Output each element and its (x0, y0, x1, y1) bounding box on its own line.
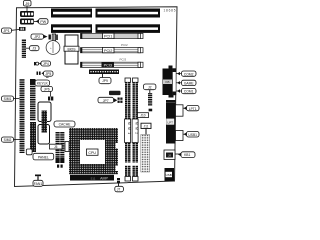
callout JP7 (98, 97, 117, 103)
svg-text:PANEL: PANEL (38, 155, 49, 159)
fan connector icon (35, 175, 41, 181)
jumper bottom-center (117, 178, 120, 186)
SMD parts under PCI1 (121, 43, 128, 47)
io tab above stack1 (169, 66, 173, 69)
callout JP3 (26, 46, 39, 51)
SMD parts under PCI2 (120, 57, 127, 61)
svg-text:CACHE: CACHE (59, 123, 72, 127)
power connector PS1 (hatched) (141, 135, 150, 173)
callout JP6 (41, 86, 53, 96)
SIMM socket column 2 upper (30, 79, 36, 121)
label J10 (138, 113, 149, 118)
jumper J1 icon (34, 62, 39, 65)
connector box with dark label (mid right) (164, 150, 181, 160)
svg-text:GAME: GAME (184, 82, 195, 86)
small part (56, 35, 58, 41)
jumper JP6 dots (48, 97, 53, 101)
dark label JP8 (109, 91, 121, 95)
header J2 (148, 93, 152, 106)
svg-text:PCI2: PCI2 (104, 49, 112, 53)
svg-text:JP5: JP5 (45, 72, 51, 76)
svg-text:J10: J10 (140, 114, 145, 118)
svg-text:KB: KB (165, 80, 169, 84)
socket side notch left (65, 142, 69, 152)
vertical header over chips (42, 111, 48, 133)
io stack2 (serial/parallel) (166, 103, 183, 144)
callout PWR (36, 19, 48, 24)
pin header strip (left) (22, 39, 26, 58)
svg-text:KEYLK: KEYLK (37, 82, 49, 86)
svg-text:BIOS: BIOS (67, 47, 76, 51)
svg-text:JP2: JP2 (34, 35, 40, 39)
callout SIMM2 (2, 137, 20, 142)
ISA slot ISA1 (51, 9, 160, 18)
SIMM socket column 1 (20, 79, 25, 153)
jumper J2 icon (37, 72, 41, 75)
svg-text:LPT1: LPT1 (189, 107, 197, 111)
callout LPT1 (183, 106, 199, 111)
io stack3 (USB) (165, 168, 175, 181)
svg-text:511: 511 (91, 176, 96, 180)
jumper JP7 dots (118, 98, 123, 103)
callout JP9 (99, 78, 111, 84)
svg-text:J2: J2 (148, 86, 152, 90)
front panel label (33, 153, 54, 160)
svg-text:LPT: LPT (167, 120, 173, 124)
io tab above stack2 (166, 100, 176, 103)
socket side notch right (116, 143, 119, 149)
svg-text:+: + (50, 46, 52, 50)
label J11 (141, 123, 151, 134)
callout SIMM1 (2, 96, 20, 101)
svg-text:JP1: JP1 (3, 29, 9, 33)
callout USB1 (183, 132, 199, 138)
jumper block row JP9 (89, 70, 119, 78)
svg-text:COM1: COM1 (184, 90, 194, 94)
svg-text:JP6: JP6 (44, 88, 50, 92)
svg-text:18685: 18685 (164, 9, 176, 13)
io stack1 (keyboard/mouse) (163, 69, 177, 98)
ISA slot ISA2 (51, 24, 160, 33)
jumper block JP1 (striped) (19, 27, 26, 31)
DIMM socket DIMM2 (132, 78, 138, 181)
svg-text:J11: J11 (144, 125, 149, 129)
crystal (52, 34, 55, 41)
callout KEYLOCK (wide) (35, 76, 50, 86)
chip U4 (38, 125, 50, 145)
svg-text:PW: PW (40, 20, 46, 24)
small dots below headers (57, 165, 59, 168)
svg-text:USB: USB (166, 173, 172, 177)
callout JP4 (39, 61, 51, 66)
svg-text:SIM1: SIM1 (4, 97, 12, 101)
socket bottom bar with AMP (70, 175, 114, 181)
svg-text:CPU: CPU (88, 151, 96, 155)
board outline (15, 7, 178, 187)
svg-text:SIM2: SIM2 (4, 138, 12, 142)
svg-text:J7: J7 (117, 188, 121, 192)
svg-text:JP4: JP4 (43, 62, 49, 66)
callout J7 (bottom) (115, 186, 124, 192)
svg-text:PCI3: PCI3 (120, 57, 127, 61)
svg-text:J8: J8 (168, 154, 172, 158)
CPU socket U1 (69, 128, 118, 174)
svg-text:KB1: KB1 (184, 153, 190, 157)
connector CN3 (4-pin header) (20, 19, 38, 25)
svg-text:FAN1: FAN1 (34, 182, 43, 186)
svg-text:JP7: JP7 (103, 99, 109, 103)
PCI slot PCI3 (81, 62, 144, 67)
svg-text:J3: J3 (32, 47, 36, 51)
callout GAME (176, 80, 196, 85)
callout CMOS (battery area) (31, 34, 48, 39)
capacitor pair (49, 35, 51, 40)
PCI slot PCI2 (81, 47, 144, 53)
BIOS chip U7 (64, 35, 79, 64)
label J5 over headers (50, 144, 63, 149)
svg-text:PCI1: PCI1 (104, 35, 112, 39)
chip U3 (38, 102, 51, 122)
header column pair (56, 132, 60, 158)
svg-text:COM2: COM2 (184, 72, 194, 76)
svg-text:JP9: JP9 (102, 79, 108, 83)
front panel small box (26, 149, 32, 155)
callout JP1 (2, 28, 20, 33)
PCI slot PCI1 (81, 33, 144, 39)
svg-text:USB1: USB1 (188, 133, 197, 137)
svg-text:J5: J5 (54, 145, 58, 149)
callout COM2 (176, 71, 196, 76)
callout COM1 (176, 88, 196, 93)
svg-text:PCI3: PCI3 (104, 63, 112, 67)
DIMM socket DIMM1 (125, 78, 131, 181)
svg-text:PCI2: PCI2 (121, 43, 128, 47)
battery BT1 (46, 41, 60, 55)
callout J2 (144, 84, 156, 93)
callout FAN1 (33, 180, 43, 186)
callout JP5 (41, 71, 53, 76)
callout KB1 (178, 152, 195, 158)
callout J9 (top) (24, 1, 32, 12)
connector column 2 lower (dotted) (30, 122, 36, 152)
cache label (54, 121, 75, 127)
connector CN2 (4-pin header) (20, 11, 34, 17)
svg-text:AMP: AMP (100, 177, 108, 181)
